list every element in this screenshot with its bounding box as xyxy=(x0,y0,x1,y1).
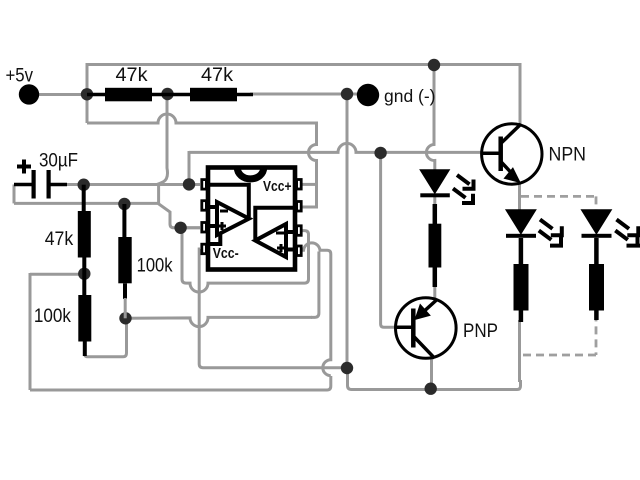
wire line B riser x318 xyxy=(311,252,319,318)
wire PNP emitter down to bus xyxy=(430,359,433,389)
node PNP emitter junction xyxy=(425,383,437,395)
transistor Q1 NPN xyxy=(481,124,542,184)
wire +5v rail left vertical xyxy=(86,63,89,123)
wire node C down merging into plus rail xyxy=(157,94,168,184)
op-amp B minus mark xyxy=(276,232,284,235)
wire +5v terminal to node A xyxy=(36,93,87,96)
wire LED1 resistor to PNP top xyxy=(433,266,436,299)
op-amp A triangle xyxy=(217,202,249,235)
node I junction xyxy=(118,198,130,210)
node G junction xyxy=(183,178,195,190)
op-amp A output wire to pin 1 xyxy=(208,185,249,217)
svg-text:30µF: 30µF xyxy=(39,151,78,172)
IC pin 8 xyxy=(297,180,302,190)
node K junction xyxy=(78,268,90,280)
IC pin 2 xyxy=(202,201,207,211)
IC pin 1 xyxy=(202,180,207,190)
op-amp A plus mark xyxy=(218,222,226,230)
wire NPN emitter to LED2 chain xyxy=(518,184,521,212)
LED D2 xyxy=(506,210,535,234)
wire left wall down xyxy=(29,273,32,390)
svg-text:100k: 100k xyxy=(34,306,71,327)
wire LED2 chain lower lead to bus xyxy=(518,320,521,382)
node H junction xyxy=(78,179,90,191)
wire line A pin6 to pin2-dot riser with hop over pin4 wire xyxy=(182,231,309,293)
LED D1 xyxy=(421,170,450,193)
wire node G riser xyxy=(188,151,191,184)
resistor R8 xyxy=(589,264,604,311)
wire cap left lead down xyxy=(13,185,16,204)
wire pin 3 from node J xyxy=(181,226,200,229)
node J junction xyxy=(174,222,186,234)
wire R2 to node D and gnd terminal xyxy=(250,93,360,96)
wire hop on node B drop over base rail xyxy=(426,65,434,171)
IC pin 6 xyxy=(297,226,302,236)
IC pin 4 xyxy=(202,244,207,254)
wire NPN collector drop xyxy=(519,63,522,125)
+5v terminal xyxy=(19,84,39,104)
LED D3 arrows xyxy=(615,220,640,248)
resistor R6 xyxy=(429,224,442,268)
node F junction xyxy=(374,147,386,159)
capacitor C1 30uF xyxy=(14,183,32,187)
wire Vcc+ tee to pin 8 xyxy=(302,183,317,186)
wire cap plus rail to pin 1 xyxy=(60,183,200,186)
wire plus rail drop to minus rail xyxy=(157,184,160,203)
svg-text:47k: 47k xyxy=(116,65,149,86)
IC notch xyxy=(237,168,263,179)
wire top +5v rail horizontal xyxy=(87,63,520,66)
node B junction xyxy=(428,59,440,71)
wire node F down to PNP base xyxy=(381,153,396,327)
svg-text:47k: 47k xyxy=(201,65,234,86)
LED D2 arrows xyxy=(539,220,564,248)
op-amp B plus mark xyxy=(277,244,285,252)
resistor R7 xyxy=(514,264,529,311)
wire pin 4 down and right to node E xyxy=(199,249,347,368)
svg-text:+5v: +5v xyxy=(6,65,34,87)
wire +5v lower rail with hop over node C wire xyxy=(87,114,316,123)
transistor Q2 PNP xyxy=(396,298,457,359)
resistor R5 100k vertical xyxy=(122,204,126,237)
IC pin 5 xyxy=(297,246,302,256)
resistor R2 47k xyxy=(190,88,237,102)
op-amp A input stubs xyxy=(208,207,217,226)
wire cap minus rail with jog to pin 2 xyxy=(14,203,200,227)
IC pin 3 xyxy=(202,223,207,233)
wire Vcc+ drop to pin8/pin7 with hop over base rail xyxy=(302,122,317,208)
wire LED1 lead to resistor xyxy=(433,196,436,225)
wire node K to left wall xyxy=(30,273,84,276)
svg-text:Vcc-: Vcc- xyxy=(213,245,239,262)
gnd terminal xyxy=(357,84,379,106)
op-amp IC U1 body xyxy=(208,168,295,270)
svg-text:47k: 47k xyxy=(45,229,74,250)
svg-text:gnd (-): gnd (-) xyxy=(384,86,436,106)
resistor R3 47k vertical xyxy=(82,185,86,212)
wire node E drop to bottom bus right xyxy=(348,368,521,390)
wire pin 5 to bottom bus with hop over y368 wire xyxy=(302,243,331,376)
wire op-amp base rail y152 with hop over node D wire xyxy=(189,143,481,152)
node A junction xyxy=(81,88,93,100)
op-amp B triangle xyxy=(255,224,286,257)
resistor R1 47k xyxy=(87,93,105,97)
LED D3 xyxy=(582,210,611,234)
op-amp B input stubs xyxy=(286,232,295,250)
dashed expansion box xyxy=(520,196,596,355)
resistor R4 100k vertical xyxy=(82,274,86,295)
node E junction xyxy=(341,362,353,374)
node L junction xyxy=(119,312,131,324)
node C junction xyxy=(161,88,173,100)
svg-text:PNP: PNP xyxy=(463,320,498,342)
LED D1 arrows xyxy=(453,175,476,205)
op-amp A pin4 link xyxy=(210,234,220,244)
svg-text:Vcc+: Vcc+ xyxy=(263,178,292,195)
op-amp A minus mark xyxy=(220,210,228,213)
IC pin 7 xyxy=(297,202,302,212)
wire bottom bus left to pin5 riser xyxy=(30,376,331,390)
op-amp B output wire to pin 7 xyxy=(255,208,295,239)
wire node D down to node E xyxy=(346,94,349,368)
wire line B to node L with hop over pin4 wire xyxy=(126,317,313,326)
svg-text:100k: 100k xyxy=(137,255,173,276)
node D junction xyxy=(341,88,353,100)
svg-text:NPN: NPN xyxy=(549,144,587,166)
wire R4 bottom jog up to node L xyxy=(85,318,127,357)
